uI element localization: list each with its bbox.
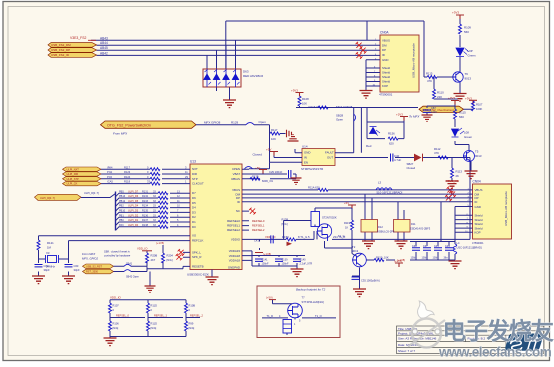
svg-text:VDD_IO: VDD_IO [110, 296, 122, 300]
svg-text:AB45: AB45 [100, 46, 108, 50]
svg-text:REFCLK: REFCLK [192, 239, 203, 243]
svg-text:ULPI_D3: ULPI_D3 [128, 210, 139, 213]
svg-text:C40: C40 [394, 154, 400, 158]
svg-text:Shield: Shield [382, 66, 390, 70]
svg-text:D5: D5 [192, 201, 196, 205]
svg-text:+5V: +5V [344, 201, 349, 205]
svg-text:L0P: L0P [468, 49, 473, 53]
svg-text:D1: D1 [192, 220, 196, 224]
svg-text:R10B: R10B [189, 304, 196, 308]
svg-text:Open: Open [336, 118, 343, 122]
svg-text:ULPI_NXT: ULPI_NXT [67, 167, 80, 171]
svg-text:PB1: PB1 [119, 214, 124, 217]
svg-text:C62: C62 [44, 264, 49, 268]
svg-text:C37: C37 [423, 245, 428, 248]
svg-text:ULPI_D6: ULPI_D6 [128, 195, 139, 198]
svg-text:NC: NC [236, 209, 240, 213]
svg-text:C63: C63 [74, 264, 79, 268]
svg-text:USB_Micro-AB receptacle: USB_Micro-AB receptacle [504, 191, 508, 226]
svg-text:REFSEL2: REFSEL2 [252, 228, 265, 232]
svg-text:ULPI_D[0..7]: ULPI_D[0..7] [84, 191, 99, 195]
svg-text:RESETB: RESETB [192, 264, 204, 268]
svg-text:10K: 10K [271, 137, 276, 141]
svg-text:ULPI_D5: ULPI_D5 [128, 200, 139, 203]
svg-text:47K: 47K [427, 79, 432, 83]
svg-text:controlled by hardware: controlled by hardware [104, 254, 131, 258]
svg-text:R138: R138 [142, 224, 149, 227]
svg-text:OTG_FS2_PowerSwitchOn: OTG_FS2_PowerSwitchOn [107, 123, 151, 127]
svg-text:电子发烧友: 电子发烧友 [443, 317, 554, 344]
svg-text:ULPI_DIR: ULPI_DIR [67, 172, 79, 176]
svg-text:REFSEL_2: REFSEL_2 [190, 314, 204, 318]
svg-text:USB_FS2_DP: USB_FS2_DP [51, 48, 70, 52]
svg-text:D2: D2 [192, 215, 196, 219]
svg-text:ST2N7002K: ST2N7002K [322, 216, 337, 220]
svg-text:ULPI_D1: ULPI_D1 [128, 219, 139, 222]
svg-text:R150: R150 [282, 235, 289, 239]
svg-text:From MFX: From MFX [82, 252, 95, 256]
svg-text:CN0A: CN0A [380, 31, 389, 35]
svg-text:ULPI_D2: ULPI_D2 [128, 214, 139, 217]
svg-text:R133: R133 [142, 200, 149, 203]
svg-text:[N/A]: [N/A] [167, 258, 173, 262]
svg-text:R13B: R13B [252, 175, 259, 179]
svg-text:[N/A]: [N/A] [282, 222, 288, 226]
svg-text:PB13: PB13 [119, 195, 126, 198]
svg-text:Open: Open [259, 120, 267, 124]
svg-text:VBUS: VBUS [382, 39, 390, 43]
svg-text:PI11: PI11 [107, 170, 113, 174]
svg-text:MFX_GPIO2: MFX_GPIO2 [82, 257, 98, 261]
svg-text:R11D: R11D [151, 322, 158, 326]
svg-text:R110: R110 [437, 91, 444, 95]
svg-text:100K: 100K [476, 107, 482, 111]
svg-text:/PA4: /PA4 [107, 165, 113, 169]
svg-text:GND: GND [382, 58, 388, 62]
svg-text:KOP: KOP [475, 231, 481, 235]
svg-text:ULPI_D0: ULPI_D0 [128, 224, 139, 227]
svg-text:www.elecfans.com: www.elecfans.com [438, 345, 552, 360]
svg-text:CLKOUT: CLKOUT [192, 182, 204, 186]
svg-text:SPK_R: SPK_R [192, 255, 201, 259]
svg-text:PB10: PB10 [119, 210, 126, 213]
svg-text:+3V3: +3V3 [291, 89, 298, 93]
svg-text:R134: R134 [142, 205, 149, 208]
svg-text:100n: 100n [433, 256, 439, 259]
svg-text:R156: R156 [388, 132, 395, 136]
svg-text:+5V: +5V [255, 166, 260, 170]
svg-text:PB0: PB0 [119, 219, 124, 222]
svg-text:DM: DM [382, 43, 387, 47]
svg-text:USB_FS2_ID: USB_FS2_ID [51, 53, 70, 57]
svg-text:Closed: Closed [253, 152, 263, 156]
svg-text:EN: EN [304, 160, 308, 164]
svg-text:C141: C141 [262, 259, 269, 262]
svg-text:/CA5: /CA5 [107, 180, 113, 184]
svg-text:T7: T7 [302, 296, 306, 300]
svg-text:NXT: NXT [192, 167, 198, 171]
svg-text:D6: D6 [192, 196, 196, 200]
svg-text:ESDA14V2-2BF3: ESDA14V2-2BF3 [410, 227, 431, 231]
svg-text:510-16F1211[BRAD]: 510-16F1211[BRAD] [377, 191, 403, 195]
svg-text:C41: C41 [254, 239, 259, 243]
svg-text:RST_3300: RST_3300 [86, 271, 99, 274]
svg-text:RED A6V1BC6: RED A6V1BC6 [243, 74, 264, 78]
svg-text:PB12: PB12 [119, 200, 126, 203]
svg-text:REFSEL1: REFSEL1 [227, 224, 240, 228]
svg-text:AB42: AB42 [100, 51, 108, 55]
svg-text:RBIAS: RBIAS [231, 177, 240, 181]
svg-text:REFSEL2: REFSEL2 [227, 228, 240, 232]
svg-text:560: 560 [459, 115, 464, 119]
svg-text:V3U2_HS: V3U2_HS [446, 179, 459, 183]
svg-text:10K: 10K [302, 102, 307, 106]
svg-text:L3: L3 [378, 181, 382, 185]
svg-text:ID: ID [237, 200, 240, 204]
svg-text:D12: D12 [378, 225, 383, 229]
svg-text:R131: R131 [142, 190, 149, 193]
svg-text:9013: 9013 [352, 249, 359, 253]
svg-text:STP: STP [192, 177, 198, 181]
svg-text:(+1V8): (+1V8) [263, 252, 271, 256]
svg-text:47590001: 47590001 [472, 241, 484, 245]
svg-text:C140: C140 [300, 259, 307, 262]
svg-text:D7: D7 [192, 191, 196, 195]
svg-text:R107: R107 [113, 304, 120, 308]
svg-text:PB2: PB2 [119, 205, 124, 208]
svg-text:R124: R124 [124, 175, 131, 179]
svg-text:1K: 1K [345, 226, 348, 230]
svg-text:C44: C44 [445, 245, 450, 248]
svg-text:+3V3: +3V3 [465, 96, 472, 100]
svg-text:R108: R108 [302, 97, 309, 101]
svg-text:X3: X3 [46, 251, 50, 255]
svg-text:8206_1%: 8206_1% [262, 179, 274, 183]
svg-text:REFSEL_1: REFSEL_1 [154, 314, 168, 318]
svg-text:9013: 9013 [475, 154, 482, 158]
svg-text:R136: R136 [142, 214, 149, 217]
svg-text:CPEN: CPEN [232, 167, 240, 171]
svg-text:VDDA33: VDDA33 [229, 249, 241, 253]
svg-text:ULPI_D7: ULPI_D7 [128, 190, 139, 193]
svg-text:36n: 36n [444, 256, 449, 259]
svg-text:USB_Micro-AB receptacle: USB_Micro-AB receptacle [412, 43, 416, 78]
svg-text:T1_D: T1_D [267, 314, 274, 318]
svg-text:100nF: 100nF [262, 263, 270, 266]
svg-text:DP: DP [382, 48, 386, 52]
svg-text:To MFX: To MFX [409, 115, 420, 119]
svg-text:Shield: Shield [382, 75, 390, 79]
svg-text:PC0: PC0 [107, 175, 113, 179]
svg-text:PA3: PA3 [119, 224, 124, 227]
svg-text:(+1V5): (+1V5) [156, 241, 164, 245]
svg-text:USC-16F1211[BRAD]: USC-16F1211[BRAD] [457, 245, 482, 249]
svg-text:C35 1000p[N/A]: C35 1000p[N/A] [361, 279, 380, 283]
svg-text:[N/A]: [N/A] [189, 326, 195, 330]
svg-text:DIR: DIR [192, 172, 197, 176]
svg-text:REFSEL0: REFSEL0 [252, 219, 265, 223]
svg-text:4K7: 4K7 [151, 258, 156, 262]
svg-text:C38: C38 [412, 245, 417, 248]
svg-text:(+5V): (+5V) [266, 295, 273, 299]
svg-text:R20B: R20B [151, 254, 158, 258]
svg-text:R113: R113 [456, 170, 463, 174]
svg-text:REFSEL_0: REFSEL_0 [116, 314, 130, 318]
svg-text:R11D: R11D [151, 304, 158, 308]
svg-text:L08: L08 [464, 131, 469, 135]
svg-text:Shield: Shield [382, 71, 390, 75]
svg-text:SPK_L: SPK_L [192, 250, 201, 254]
svg-text:R109: R109 [464, 26, 471, 30]
svg-text:ULPI_STP: ULPI_STP [67, 177, 80, 181]
svg-text:U13: U13 [190, 160, 196, 164]
svg-text:T6: T6 [465, 72, 469, 76]
svg-text:R116 0: R116 0 [309, 105, 319, 109]
svg-text:Green: Green [464, 135, 472, 139]
svg-text:SB42 Open: SB42 Open [126, 276, 140, 279]
svg-text:R135: R135 [142, 210, 149, 213]
svg-text:FAULT: FAULT [325, 151, 334, 155]
svg-text:REFSEL0: REFSEL0 [227, 219, 240, 223]
svg-text:USB_FS2_DM: USB_FS2_DM [51, 43, 71, 47]
svg-text:R99: R99 [189, 322, 194, 326]
svg-text:+5V: +5V [266, 148, 271, 152]
svg-text:REFSEL1: REFSEL1 [252, 224, 265, 228]
svg-text:C87: C87 [431, 106, 436, 110]
svg-text:OUT: OUT [327, 156, 333, 160]
svg-text:Green: Green [468, 54, 476, 58]
svg-text:R117: R117 [271, 128, 278, 132]
svg-text:From MFX: From MFX [113, 132, 128, 136]
svg-text:R121: R121 [47, 241, 54, 245]
svg-text:D11: D11 [411, 222, 416, 226]
svg-text:9013: 9013 [465, 77, 472, 81]
svg-text:VDDA18: VDDA18 [229, 254, 241, 258]
svg-text:+2V3: +2V3 [396, 113, 403, 117]
svg-text:2K: 2K [456, 174, 460, 178]
svg-text:AB44: AB44 [100, 41, 108, 45]
svg-text:IN: IN [304, 156, 307, 160]
svg-text:100n: 100n [411, 256, 417, 259]
svg-text:STT4P3LLH6[N/A]: STT4P3LLH6[N/A] [302, 300, 325, 304]
svg-text:D0: D0 [192, 225, 196, 229]
svg-text:ULPI_CK: ULPI_CK [67, 182, 78, 186]
svg-text:AB43: AB43 [100, 36, 108, 40]
svg-text:T5: T5 [475, 150, 479, 154]
svg-text:R11A 620: R11A 620 [308, 186, 320, 190]
svg-text:ULPI_D4: ULPI_D4 [128, 205, 139, 208]
svg-text:100n: 100n [422, 256, 428, 259]
svg-text:VDDA18: VDDA18 [229, 259, 241, 263]
svg-text:100n: 100n [431, 110, 437, 114]
svg-text:USBULC6-2P6: USBULC6-2P6 [377, 230, 395, 234]
svg-text:R117: R117 [124, 165, 131, 169]
svg-text:D4: D4 [192, 206, 196, 210]
svg-text:VBAT: VBAT [233, 172, 241, 176]
svg-text:MFX GPIO8: MFX GPIO8 [336, 105, 353, 109]
svg-text:R119: R119 [344, 221, 351, 225]
svg-text:C139: C139 [282, 259, 289, 262]
svg-text:(+1V8): (+1V8) [397, 258, 405, 262]
svg-text:ID: ID [382, 53, 385, 57]
svg-text:GND: GND [304, 151, 310, 155]
svg-text:T1_O: T1_O [315, 314, 322, 318]
svg-text:Backup footprint for T2: Backup footprint for T2 [296, 288, 326, 292]
svg-text:+3V3: +3V3 [452, 11, 459, 15]
svg-text:R107: R107 [476, 103, 483, 107]
svg-text:Sheet: 7 of 7: Sheet: 7 of 7 [398, 349, 415, 353]
svg-text:VDD_IO: VDD_IO [137, 247, 148, 251]
svg-text:R115: R115 [426, 72, 433, 76]
svg-text:V3E3_FS2: V3E3_FS2 [70, 36, 87, 40]
svg-text:R150_10K: R150_10K [376, 256, 389, 260]
svg-text:4.7uF: 4.7uF [394, 158, 401, 162]
svg-text:CN04: CN04 [473, 180, 481, 184]
svg-text:100nF: 100nF [282, 263, 290, 266]
svg-text:STMPS2151STR: STMPS2151STR [301, 167, 323, 171]
svg-text:33pF: 33pF [74, 268, 80, 272]
svg-text:R132: R132 [142, 195, 149, 198]
svg-text:GNDPAD: GNDPAD [228, 266, 240, 270]
svg-text:SB41: SB41 [126, 263, 133, 266]
svg-text:R118: R118 [124, 180, 131, 184]
svg-text:Closed: Closed [407, 166, 416, 170]
svg-text:R129: R129 [231, 120, 239, 124]
svg-text:22K: 22K [437, 95, 442, 99]
svg-text:560: 560 [464, 30, 469, 34]
svg-text:ID: ID [475, 200, 478, 204]
svg-text:USB_S2_RST: USB_S2_RST [86, 265, 102, 268]
svg-text:39pF: 39pF [44, 268, 50, 272]
svg-text:C45: C45 [434, 245, 439, 248]
svg-text:T1_G: T1_G [338, 234, 345, 238]
svg-text:2.2uF_X7R: 2.2uF_X7R [300, 263, 313, 266]
svg-text:USB3300C-EZK: USB3300C-EZK [187, 273, 209, 277]
svg-text:SB8 : closed if reset is: SB8 : closed if reset is [104, 250, 130, 254]
svg-text:R204: R204 [167, 254, 174, 258]
svg-text:+3V3: +3V3 [448, 96, 455, 100]
svg-text:Red: Red [366, 144, 372, 148]
svg-text:47K: 47K [434, 151, 439, 155]
svg-text:Shield: Shield [382, 80, 390, 84]
svg-text:VDDIO: VDDIO [231, 238, 241, 242]
svg-text:R115: R115 [459, 111, 466, 115]
svg-text:1M: 1M [47, 246, 52, 250]
svg-text:R106: R106 [113, 322, 120, 326]
svg-text:GND: GND [475, 205, 481, 209]
svg-text:[N/A]: [N/A] [113, 326, 119, 330]
svg-text:D3: D3 [192, 210, 196, 214]
svg-text:KOP: KOP [382, 84, 388, 88]
svg-text:C29 100nF: C29 100nF [269, 170, 283, 174]
svg-text:PB5: PB5 [119, 190, 124, 193]
svg-text:R137: R137 [142, 219, 149, 222]
svg-text:[N/A]: [N/A] [151, 326, 157, 330]
svg-text:R123: R123 [124, 170, 131, 174]
svg-text:620: 620 [389, 142, 394, 146]
svg-text:MFX GPIO8: MFX GPIO8 [204, 120, 221, 124]
svg-text:ULPI_D[0..7]: ULPI_D[0..7] [40, 196, 55, 200]
svg-text:8 T1_G 5: 8 T1_G 5 [298, 235, 310, 239]
svg-text:47590001: 47590001 [379, 93, 393, 97]
svg-text:U14: U14 [302, 144, 308, 148]
